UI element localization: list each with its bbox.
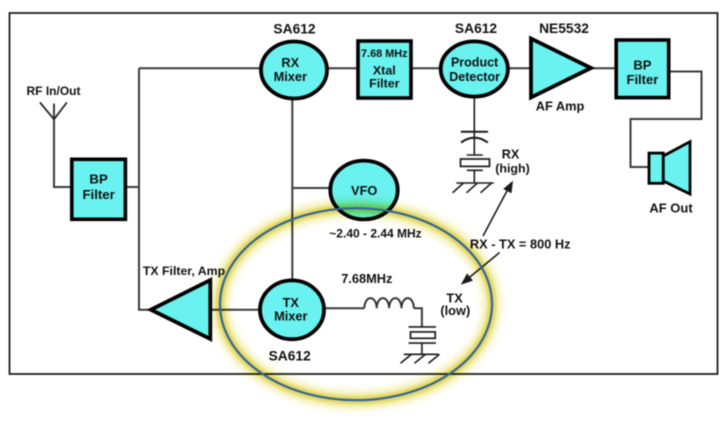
svg-text:RX - TX = 800 Hz: RX - TX = 800 Hz <box>470 237 571 252</box>
svg-text:RF In/Out: RF In/Out <box>27 84 81 98</box>
svg-text:BP: BP <box>633 58 651 73</box>
svg-text:~2.40 - 2.44 MHz: ~2.40 - 2.44 MHz <box>329 227 421 241</box>
svg-text:(high): (high) <box>495 162 529 176</box>
svg-text:SA612: SA612 <box>269 348 312 363</box>
svg-text:Product: Product <box>451 56 499 70</box>
svg-text:7.68MHz: 7.68MHz <box>341 271 392 286</box>
svg-text:BP: BP <box>89 172 108 187</box>
svg-text:SA612: SA612 <box>455 21 498 36</box>
svg-text:AF Out: AF Out <box>649 201 693 216</box>
svg-text:Filter: Filter <box>627 72 659 87</box>
svg-text:TX Filter, Amp: TX Filter, Amp <box>143 264 225 278</box>
svg-text:(low): (low) <box>440 303 470 318</box>
svg-text:NE5532: NE5532 <box>539 21 589 36</box>
svg-text:Xtal: Xtal <box>373 63 396 77</box>
svg-text:Filter: Filter <box>82 187 114 202</box>
svg-text:Mixer: Mixer <box>274 69 307 84</box>
svg-text:VFO: VFO <box>351 183 377 198</box>
svg-text:AF Amp: AF Amp <box>536 99 585 114</box>
svg-text:Mixer: Mixer <box>274 308 307 323</box>
svg-text:7.68 MHz: 7.68 MHz <box>361 48 408 60</box>
svg-text:SA612: SA612 <box>273 22 316 37</box>
svg-text:RX: RX <box>281 55 299 70</box>
svg-text:Detector: Detector <box>449 70 500 84</box>
svg-text:RX: RX <box>502 148 520 162</box>
svg-text:Filter: Filter <box>369 76 399 90</box>
